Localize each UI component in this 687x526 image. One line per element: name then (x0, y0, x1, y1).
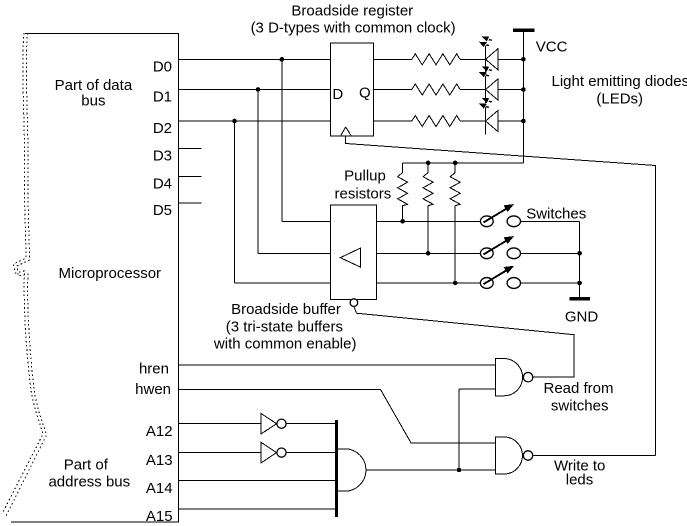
svg-text:A12: A12 (146, 423, 173, 440)
svg-text:A15: A15 (146, 508, 173, 525)
svg-text:D5: D5 (153, 202, 172, 219)
svg-text:D4: D4 (153, 176, 172, 193)
svg-text:GND: GND (565, 308, 599, 325)
svg-text:(3 D-types with common clock): (3 D-types with common clock) (251, 20, 456, 37)
svg-text:hren: hren (139, 361, 169, 378)
svg-text:D1: D1 (153, 89, 172, 106)
svg-text:Light emitting diodes: Light emitting diodes (552, 73, 687, 90)
svg-text:leds: leds (566, 472, 594, 489)
svg-text:switches: switches (551, 397, 609, 414)
svg-text:Part of: Part of (64, 457, 109, 474)
svg-text:hwen: hwen (135, 381, 171, 398)
svg-text:Read from: Read from (543, 380, 613, 397)
svg-text:D3: D3 (153, 148, 172, 165)
svg-text:bus: bus (81, 93, 105, 110)
svg-text:address bus: address bus (48, 473, 130, 490)
svg-text:D: D (332, 86, 343, 103)
svg-text:(LEDs): (LEDs) (596, 90, 643, 107)
svg-text:VCC: VCC (536, 39, 568, 56)
svg-text:Pullup: Pullup (344, 168, 386, 185)
svg-text:A14: A14 (146, 480, 173, 497)
svg-text:Microprocessor: Microprocessor (59, 265, 162, 282)
svg-text:with common enable): with common enable) (213, 336, 357, 353)
svg-text:D0: D0 (153, 59, 172, 76)
svg-text:Switches: Switches (526, 205, 586, 222)
svg-text:A13: A13 (146, 452, 173, 469)
svg-text:Broadside register: Broadside register (291, 3, 413, 20)
svg-text:Q: Q (359, 85, 371, 102)
svg-text:Part of data: Part of data (55, 77, 133, 94)
svg-text:(3 tri-state buffers: (3 tri-state buffers (226, 318, 343, 335)
svg-text:resistors: resistors (335, 185, 392, 202)
svg-text:D2: D2 (153, 120, 172, 137)
svg-text:Broadside buffer: Broadside buffer (231, 301, 341, 318)
